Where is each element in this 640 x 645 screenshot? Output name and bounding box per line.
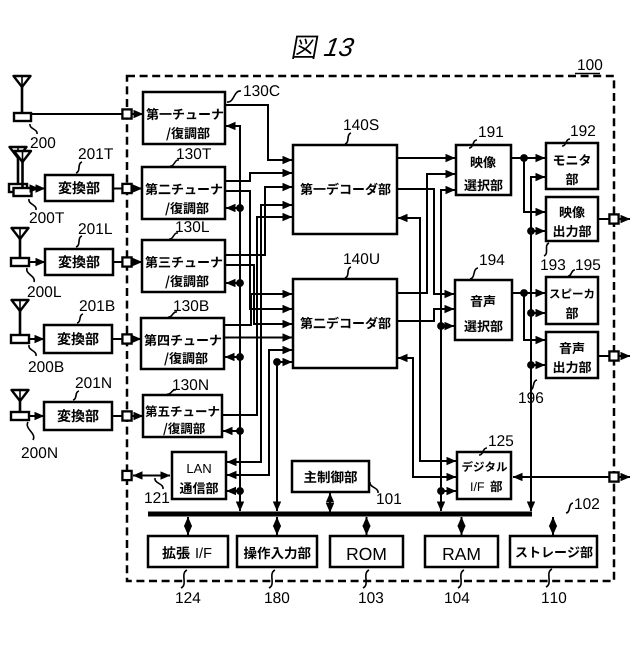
wire converterB out bbox=[112, 338, 122, 340]
wire controller to bus bbox=[329, 493, 331, 513]
LAN communication 121 bbox=[172, 452, 226, 499]
connector square row1 bbox=[122, 109, 131, 118]
wire antenna200T to converter bbox=[32, 188, 40, 190]
leader 200N bbox=[27, 422, 33, 440]
wire 130B to 140U lower bbox=[224, 337, 292, 339]
wire trunk arrow into tuner4 bbox=[225, 356, 240, 358]
main controller 101 bbox=[292, 461, 369, 492]
label 191 bbox=[479, 126, 503, 137]
wire bus to storage bbox=[552, 517, 554, 535]
label 201B bbox=[80, 300, 115, 311]
text 部 mon bbox=[566, 173, 578, 185]
leader 121 bbox=[155, 478, 163, 489]
junction outputs trunk speaker bbox=[527, 309, 535, 317]
wire 140S to video selector bbox=[397, 157, 455, 159]
text 選択部 a bbox=[464, 320, 502, 332]
label 201N bbox=[76, 377, 111, 388]
wire 130N to 140S bbox=[222, 217, 292, 415]
leader 140U bbox=[345, 267, 351, 278]
antenna 200N bbox=[11, 390, 29, 420]
leader 191 bbox=[469, 140, 477, 148]
wire trunk to video output bbox=[531, 230, 545, 232]
label 195 bbox=[576, 259, 600, 270]
digital IF 125 bbox=[457, 452, 511, 499]
leader 194 bbox=[470, 268, 478, 279]
leader 140S bbox=[345, 133, 351, 144]
monitor 192 bbox=[546, 143, 598, 189]
wire video selector to monitor bbox=[511, 157, 545, 159]
label 194 bbox=[480, 254, 504, 265]
text 出力部 a bbox=[554, 361, 591, 373]
wire AV line to digital IF bbox=[441, 490, 456, 492]
wire 140U to audio selector bbox=[397, 309, 454, 321]
label 180 bbox=[265, 592, 289, 603]
text 第四チューナ bbox=[144, 334, 221, 346]
video output bbox=[546, 197, 598, 241]
text 第一チューナ bbox=[146, 108, 223, 120]
junction 140U in6 bbox=[273, 358, 281, 366]
wire video output external bbox=[598, 218, 609, 220]
text /復調部 L bbox=[165, 275, 208, 288]
audio output bbox=[546, 332, 598, 378]
wire trunk arrow into tuner3 bbox=[226, 282, 240, 284]
wire bus to expansion IF bbox=[187, 517, 189, 535]
wire bus to operation input bbox=[276, 517, 278, 535]
leader 102 bbox=[566, 503, 573, 513]
dashed enclosure frame 100 bbox=[127, 76, 614, 581]
operation input 180 bbox=[237, 536, 317, 567]
leader 195 bbox=[568, 270, 575, 276]
leader 196 bbox=[530, 380, 537, 390]
converter 201B bbox=[44, 325, 112, 353]
text 第一デコーダ部 bbox=[300, 183, 390, 195]
wire antenna200 to frame bbox=[31, 113, 122, 115]
wire antenna200N to converter bbox=[29, 415, 44, 417]
wire 140U to video selector bbox=[397, 174, 455, 293]
wire 130B to 140U upper bbox=[224, 294, 292, 325]
tuner 130T bbox=[142, 167, 225, 219]
label 130C bbox=[244, 85, 279, 96]
wire converterL out bbox=[113, 261, 122, 263]
wire AV line to audio selector bbox=[441, 325, 454, 327]
wire audio selector to speaker bbox=[512, 292, 545, 294]
label 200T bbox=[30, 212, 64, 223]
text 映像 out bbox=[560, 206, 585, 218]
text 音声 sel bbox=[471, 295, 496, 307]
expansion IF 124 bbox=[148, 536, 228, 567]
text /復調部 T bbox=[165, 202, 208, 215]
wire frame to tuner5 bbox=[132, 415, 143, 417]
label 200B bbox=[29, 361, 64, 372]
text LAN bbox=[187, 464, 210, 473]
label 110 bbox=[542, 592, 566, 603]
text 拡張 I/F bbox=[196, 547, 211, 558]
leader 201T bbox=[76, 162, 82, 173]
connector square row5 bbox=[122, 411, 131, 420]
wire bus AV line bbox=[441, 190, 455, 511]
wire digital IF out arrow bbox=[619, 476, 630, 478]
text ストレージ部 bbox=[516, 546, 593, 558]
connector square row3 bbox=[122, 257, 131, 266]
leader 130T bbox=[170, 160, 179, 166]
text 第五チューナ bbox=[145, 405, 219, 417]
antenna 200B bbox=[11, 300, 29, 343]
text 部 dif bbox=[490, 480, 502, 492]
text /復調部 N bbox=[163, 422, 205, 435]
label 200L bbox=[28, 286, 61, 297]
junction video selector out bbox=[520, 154, 528, 162]
wire 130L to 140S bbox=[225, 187, 292, 255]
leader 110 bbox=[546, 569, 552, 587]
text I/F bbox=[471, 482, 484, 491]
converter 201T bbox=[45, 175, 113, 201]
wire LAN external bbox=[133, 475, 170, 477]
leader 201B bbox=[77, 314, 83, 323]
wire trunk to audio output bbox=[531, 364, 545, 366]
video selector 191 bbox=[456, 145, 511, 195]
text /復調部 B bbox=[164, 352, 207, 365]
wire 130T to 140U bbox=[225, 191, 292, 309]
wire audio output external bbox=[598, 355, 609, 357]
wire trunk arrow into tuner5 bbox=[223, 430, 240, 432]
wire frame to tuner1 bbox=[132, 113, 143, 115]
connector square digital IF bbox=[609, 472, 618, 481]
connector square LAN bbox=[122, 471, 131, 480]
wire 130L to 140U bbox=[225, 265, 292, 324]
text 第二デコーダ部 bbox=[300, 317, 390, 329]
wire control trunk to tuner1 bbox=[226, 126, 240, 511]
junction trunk tuner4 bbox=[236, 353, 244, 361]
text 通信部 bbox=[180, 482, 218, 494]
junction AV line digital IF bbox=[437, 487, 445, 495]
connector square row2 bbox=[122, 184, 131, 193]
label 200N bbox=[22, 447, 57, 458]
antenna 200T rear bbox=[9, 147, 27, 192]
label 100 bbox=[578, 59, 602, 70]
wire frame to tuner4 bbox=[132, 338, 141, 340]
text 選択部 v bbox=[464, 179, 502, 191]
antenna 200T front bbox=[14, 151, 32, 196]
text 部 spk bbox=[566, 307, 578, 319]
text RAM bbox=[444, 548, 480, 560]
junction trunk tuner5 bbox=[236, 427, 244, 435]
title kanji ZU bbox=[292, 36, 318, 59]
speaker 195 bbox=[546, 277, 598, 324]
label 103 bbox=[359, 592, 383, 603]
audio selector 194 bbox=[455, 280, 512, 340]
antenna 200 bbox=[14, 76, 32, 121]
tuner 130B bbox=[141, 318, 224, 369]
tuner 130L bbox=[142, 240, 225, 292]
wire bus to 140U bbox=[277, 362, 292, 511]
title number 13 bbox=[324, 38, 355, 56]
text ROM bbox=[348, 548, 386, 560]
label 125 bbox=[489, 435, 513, 446]
text 拡張 bbox=[162, 546, 190, 559]
leader 200T bbox=[29, 199, 36, 210]
leader 200 bbox=[30, 124, 37, 134]
wire bus outputs trunk bbox=[531, 177, 545, 511]
wire converterT out bbox=[113, 188, 122, 190]
label 192 bbox=[571, 125, 595, 136]
wire 130C to 140S bbox=[225, 105, 292, 160]
text 映像 sel bbox=[471, 156, 496, 168]
wire trunk to speaker bbox=[531, 312, 545, 314]
wire antenna200B to converter bbox=[29, 338, 44, 340]
wire 140U digitalIF link bbox=[398, 358, 456, 477]
label 100 underline bbox=[575, 73, 600, 75]
leader 200L bbox=[27, 268, 35, 282]
antenna 200L bbox=[11, 228, 29, 266]
label 140U bbox=[344, 253, 379, 264]
wire 130T to 140S bbox=[225, 173, 292, 181]
text 音声 out bbox=[560, 342, 585, 354]
leader 200B bbox=[29, 345, 36, 356]
junction AV line audio selector bbox=[437, 322, 445, 330]
wire audio out arrow bbox=[619, 355, 630, 357]
label 201L bbox=[79, 223, 112, 234]
connector square video out bbox=[609, 214, 618, 223]
text 操作入力部 bbox=[244, 547, 311, 560]
decoder 140U bbox=[293, 279, 397, 368]
label 193 bbox=[541, 259, 565, 270]
label 130N bbox=[173, 379, 208, 390]
connector square audio out bbox=[609, 351, 618, 360]
wire converterN out bbox=[112, 415, 122, 417]
ROM 103 bbox=[330, 536, 403, 567]
label 200 bbox=[31, 137, 55, 148]
wire 140S to audio selector bbox=[397, 189, 454, 294]
storage 110 bbox=[510, 536, 597, 567]
text 変換部 B bbox=[57, 332, 98, 345]
leader 180 bbox=[269, 570, 275, 588]
text モニタ bbox=[554, 154, 590, 166]
converter 201N bbox=[44, 402, 112, 430]
wire audio selector to audio output bbox=[524, 293, 545, 340]
wire bus to RAM bbox=[461, 517, 463, 535]
leader 130C bbox=[227, 91, 241, 102]
leader 193 bbox=[544, 243, 549, 256]
wire antenna200T to converter second arrow bbox=[33, 188, 45, 190]
text /復調部 C bbox=[166, 127, 209, 140]
wire LAN to 140S bbox=[227, 205, 292, 462]
label 121 bbox=[145, 492, 169, 503]
label 124 bbox=[176, 592, 200, 603]
label 130T bbox=[177, 148, 211, 159]
text デジタル bbox=[462, 461, 507, 472]
leader 192 bbox=[562, 139, 570, 146]
leader 101 bbox=[370, 482, 378, 493]
leader 201N bbox=[73, 391, 79, 400]
label 102 bbox=[575, 498, 599, 509]
leader 104 bbox=[458, 570, 464, 588]
wire video out arrow bbox=[619, 218, 630, 220]
wire 140S digitalIF link bbox=[398, 218, 456, 461]
label 104 bbox=[445, 592, 469, 603]
label 140S bbox=[344, 119, 378, 130]
text 変換部 L bbox=[58, 255, 99, 268]
tuner 130C bbox=[143, 92, 225, 144]
text 変換部 T bbox=[58, 181, 99, 194]
text 出力部 v bbox=[554, 225, 591, 237]
wire frame to tuner2 bbox=[132, 188, 142, 190]
leader 125 bbox=[479, 448, 487, 455]
leader 201L bbox=[76, 236, 82, 247]
system bus 102 bbox=[148, 512, 532, 517]
junction trunk LAN bbox=[236, 487, 244, 495]
junction outputs trunk video output bbox=[527, 227, 535, 235]
label 130B bbox=[174, 300, 208, 311]
text スピーカ bbox=[550, 288, 594, 298]
wire LAN to 140U bbox=[227, 350, 292, 475]
label 201T bbox=[79, 148, 113, 159]
leader 130N bbox=[167, 390, 176, 394]
tuner 130N bbox=[143, 395, 222, 437]
text 第二チューナ bbox=[145, 183, 222, 195]
wire bus to ROM bbox=[366, 517, 368, 535]
converter 201L bbox=[45, 249, 113, 275]
RAM 104 bbox=[425, 536, 498, 567]
label 130L bbox=[176, 221, 209, 232]
wire antenna200L to converter bbox=[29, 261, 45, 263]
text 主制御部 bbox=[304, 471, 357, 484]
label 196 bbox=[519, 392, 543, 403]
junction trunk tuner2 bbox=[236, 204, 244, 212]
leader 124 bbox=[181, 570, 187, 588]
text 変換部 N bbox=[57, 409, 98, 422]
text 第三チューナ bbox=[145, 256, 222, 268]
wire digital IF external bbox=[513, 476, 609, 478]
wire frame to tuner3 bbox=[132, 261, 142, 263]
junction audio selector out bbox=[520, 289, 528, 297]
connector square row4 bbox=[122, 334, 131, 343]
decoder 140S bbox=[293, 145, 397, 234]
leader 130B bbox=[168, 312, 177, 317]
junction trunk tuner3 bbox=[236, 279, 244, 287]
wire trunk arrow into tuner2 bbox=[226, 207, 240, 209]
leader 130L bbox=[169, 233, 178, 239]
leader 103 bbox=[363, 570, 369, 588]
label 101 bbox=[377, 493, 401, 504]
wire trunk arrow into LAN bbox=[227, 490, 241, 492]
junction outputs trunk audio output bbox=[527, 361, 535, 369]
wire video selector to video output bbox=[524, 158, 545, 212]
